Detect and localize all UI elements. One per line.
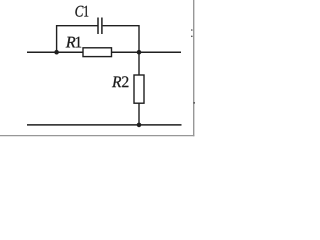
wire: branch from capacitor down to node B xyxy=(103,26,139,53)
wire: node B down to R2 xyxy=(138,52,140,75)
label R1 xyxy=(66,37,82,48)
wire: top rail left segment xyxy=(27,51,84,53)
wire: R2 down to bottom rail xyxy=(138,103,140,125)
wire: top rail right segment xyxy=(112,51,182,53)
node C junction dot xyxy=(137,123,142,128)
resistor R2 xyxy=(134,75,144,103)
speck on border xyxy=(191,29,193,31)
speck on border xyxy=(193,102,195,104)
speck on border xyxy=(191,36,193,38)
capacitor C1 xyxy=(98,18,102,35)
resistor R1 xyxy=(83,48,112,57)
label R2 xyxy=(112,76,128,87)
node B junction dot xyxy=(137,50,142,55)
wire: bottom rail xyxy=(27,124,182,126)
frame border right rule xyxy=(193,0,195,136)
wire: branch up from node A xyxy=(57,26,98,53)
label C1 xyxy=(75,6,88,17)
node A junction dot xyxy=(54,50,59,55)
frame border bottom rule xyxy=(0,135,194,137)
